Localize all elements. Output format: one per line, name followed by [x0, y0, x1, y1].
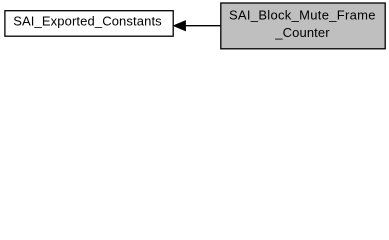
edge arrowhead pointing at SAI_Exported_Constants — [173, 21, 185, 31]
background — [0, 0, 389, 52]
edge wire from SAI_Block_Mute_Frame_Counter to SAI_Exported_Constants — [185, 25, 220, 27]
node SAI_Block_Mute_Frame_Counter box — [221, 3, 385, 49]
svg-text:_Counter: _Counter — [274, 25, 330, 40]
svg-text:SAI_Block_Mute_Frame: SAI_Block_Mute_Frame — [229, 8, 376, 23]
node SAI_Exported_Constants box — [5, 11, 173, 37]
svg-text:SAI_Exported_Constants: SAI_Exported_Constants — [13, 14, 162, 29]
